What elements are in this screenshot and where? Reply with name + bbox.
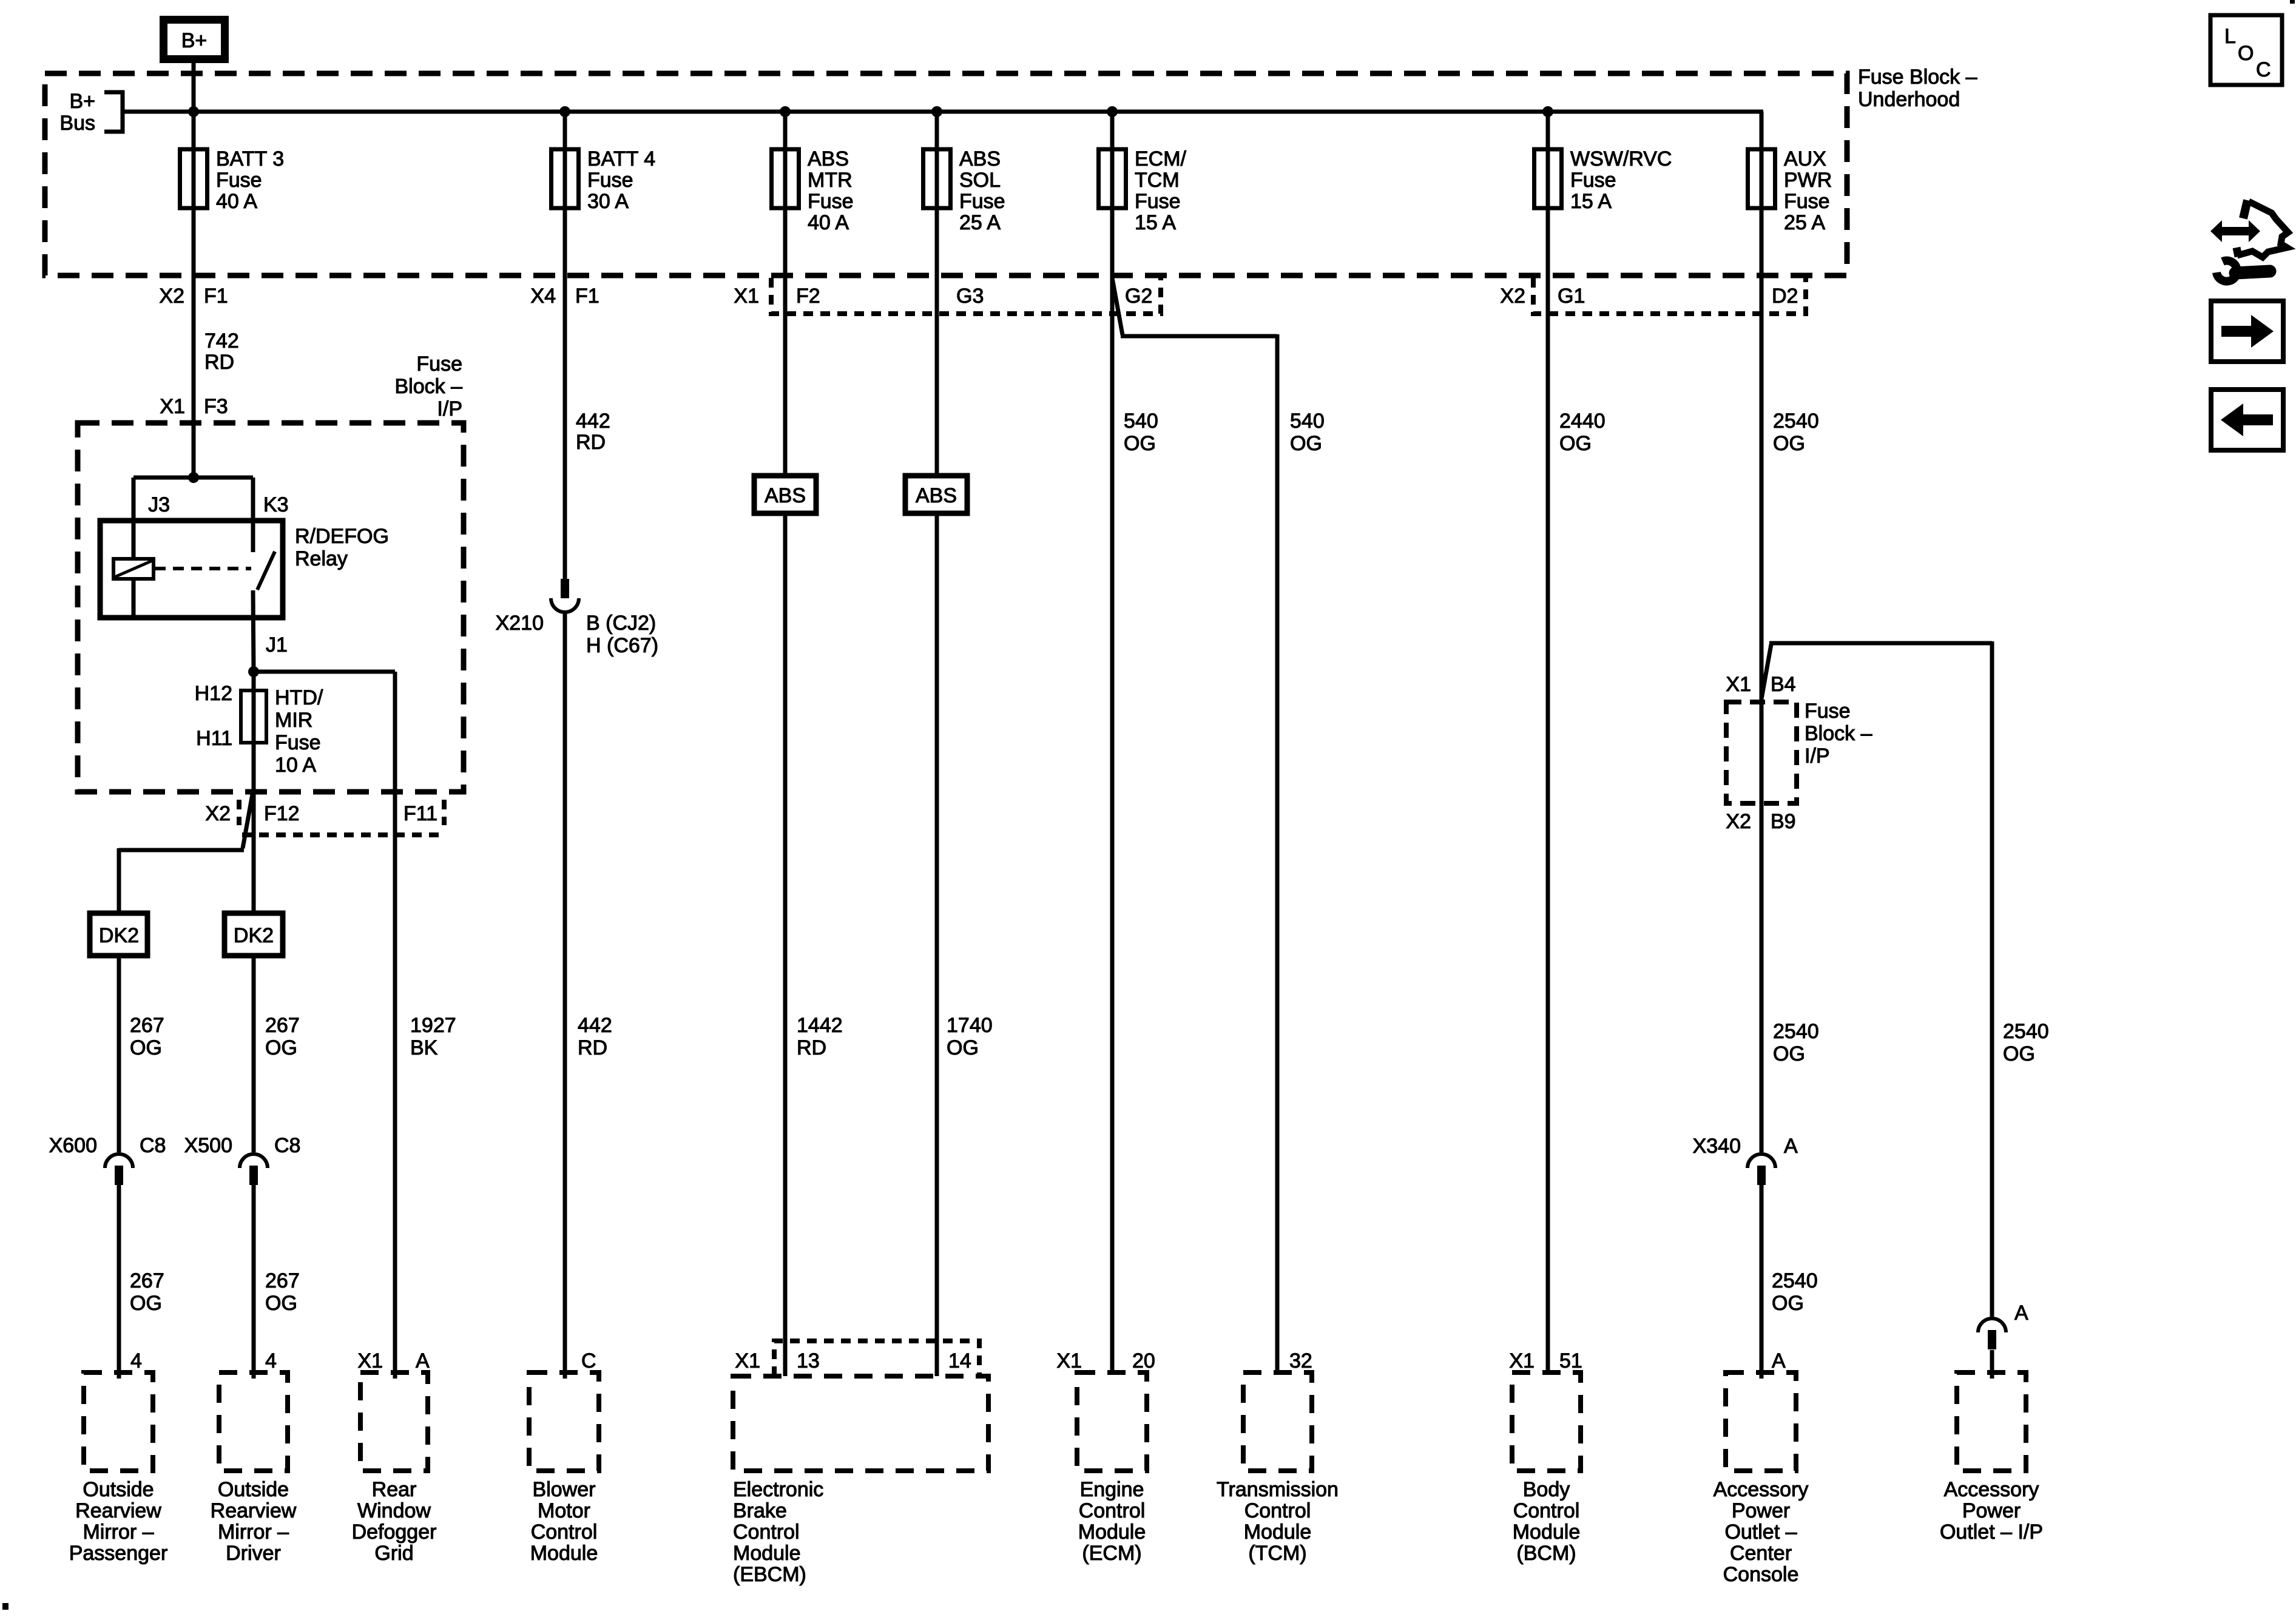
- svg-text:X1: X1: [735, 1349, 760, 1372]
- label fuse pin H12: [195, 682, 232, 705]
- svg-text:1740: 1740: [947, 1014, 993, 1037]
- label connector A: [2014, 1301, 2028, 1325]
- relay switch blade: [257, 552, 275, 590]
- legend arrow right box: [2211, 301, 2283, 362]
- label relay pin J3: [148, 493, 170, 516]
- label circuit 540 OG to ECM: [1124, 410, 1158, 455]
- svg-text:15 A: 15 A: [1570, 190, 1612, 213]
- wire 267 OG below X500 to driver mirror: [252, 1185, 256, 1379]
- svg-text:X2: X2: [159, 285, 184, 308]
- svg-text:13: 13: [797, 1349, 820, 1372]
- svg-text:Blower: Blower: [533, 1478, 596, 1501]
- wire ABS MTR fuse circuit 1442 RD to EBCM pin 13: [783, 112, 788, 1376]
- svg-text:ABS: ABS: [916, 484, 957, 507]
- svg-text:ABS: ABS: [808, 147, 849, 170]
- svg-text:20: 20: [1132, 1349, 1155, 1372]
- label circuit 267 OG driver: [265, 1014, 300, 1059]
- svg-text:F11: F11: [403, 802, 437, 825]
- svg-text:OG: OG: [1772, 1292, 1804, 1315]
- svg-text:X1: X1: [1509, 1349, 1535, 1372]
- svg-text:Fuse: Fuse: [1570, 169, 1616, 192]
- svg-text:Rear: Rear: [372, 1478, 417, 1501]
- svg-text:Fuse: Fuse: [416, 353, 462, 376]
- relay coil: [113, 559, 154, 579]
- fuse ABS MTR 40A: [772, 149, 799, 208]
- node X1 B4: [1726, 673, 1795, 696]
- svg-text:Accessory: Accessory: [1944, 1478, 2039, 1501]
- svg-text:RD: RD: [204, 351, 234, 374]
- svg-text:(ECM): (ECM): [1082, 1542, 1141, 1565]
- fuse HTD/MIR 10A: [241, 690, 266, 743]
- svg-text:O: O: [2238, 42, 2254, 65]
- wire 2540 OG from X340 to accessory outlet center console: [1760, 1185, 1764, 1379]
- svg-text:X1: X1: [357, 1349, 383, 1372]
- svg-text:J1: J1: [266, 633, 288, 657]
- svg-text:Outside: Outside: [218, 1478, 289, 1501]
- svg-text:L: L: [2224, 25, 2236, 48]
- fuse WSW/RVC 15A: [1535, 149, 1562, 208]
- pin X1 13 14 EBCM: [735, 1349, 971, 1372]
- svg-text:Transmission: Transmission: [1217, 1478, 1339, 1501]
- svg-text:C8: C8: [140, 1134, 166, 1157]
- svg-text:OG: OG: [130, 1036, 162, 1059]
- svg-text:OG: OG: [2003, 1042, 2035, 1065]
- junction B+ bus at ABS MTR: [780, 106, 791, 117]
- svg-text:Brake: Brake: [733, 1499, 787, 1522]
- svg-text:1442: 1442: [797, 1014, 843, 1037]
- legend arrow left box: [2211, 390, 2283, 450]
- label transmission control module TCM: [1217, 1478, 1339, 1565]
- pin 4 passenger mirror: [130, 1349, 142, 1372]
- wire relay J3 coil feed: [132, 478, 136, 559]
- label accessory power outlet I/P: [1940, 1478, 2043, 1544]
- label circuit 2540 OG lower: [1772, 1269, 1818, 1315]
- label engine control module ECM: [1078, 1478, 1146, 1565]
- wire WSW/RVC fuse circuit 2440 OG to BCM pin 51: [1546, 112, 1550, 1372]
- svg-text:25 A: 25 A: [959, 211, 1001, 234]
- label ECM/TCM Fuse 15 A: [1135, 147, 1187, 234]
- label Fuse Block - I/P (left): [395, 353, 463, 420]
- svg-text:(EBCM): (EBCM): [733, 1563, 806, 1586]
- component electronic brake control module EBCM: [733, 1376, 988, 1471]
- svg-text:(TCM): (TCM): [1248, 1542, 1306, 1565]
- wire relay K3 to switch contact: [251, 478, 255, 552]
- label X600 C8: [49, 1134, 166, 1157]
- wire F11 branch from J1 junction: [254, 670, 395, 674]
- svg-text:Outside: Outside: [83, 1478, 154, 1501]
- svg-text:B+: B+: [181, 29, 208, 52]
- svg-text:J3: J3: [148, 493, 170, 516]
- svg-text:X500: X500: [184, 1134, 232, 1157]
- label fuse pin H11: [196, 727, 232, 750]
- label relay pin K3: [263, 493, 289, 516]
- svg-text:OG: OG: [1559, 432, 1592, 455]
- svg-text:267: 267: [130, 1269, 164, 1292]
- component blower motor control module: [529, 1372, 599, 1471]
- svg-text:PWR: PWR: [1784, 169, 1832, 192]
- svg-text:X2: X2: [1726, 810, 1751, 833]
- svg-text:Fuse: Fuse: [1805, 700, 1851, 723]
- label Fuse Block - I/P (right): [1805, 700, 1872, 768]
- svg-text:Block –: Block –: [1805, 722, 1872, 745]
- junction relay feed node: [188, 472, 199, 483]
- svg-text:Console: Console: [1723, 1563, 1799, 1586]
- svg-text:G2: G2: [1125, 285, 1152, 308]
- wire BATT 4 circuit 442 RD from X210 to blower module: [563, 614, 567, 1379]
- svg-text:RD: RD: [797, 1036, 826, 1059]
- fuse AUX PWR 25A: [1748, 149, 1775, 208]
- wire branch 540 OG to TCM pin 32: [1112, 278, 1277, 1372]
- svg-text:OG: OG: [947, 1036, 979, 1059]
- svg-text:I/P: I/P: [437, 397, 462, 420]
- component body control module BCM: [1512, 1372, 1581, 1471]
- svg-text:Outlet – I/P: Outlet – I/P: [1940, 1521, 2043, 1544]
- pin 4 driver mirror: [265, 1349, 277, 1372]
- svg-text:Module: Module: [530, 1542, 598, 1565]
- svg-text:Passenger: Passenger: [69, 1542, 168, 1565]
- component transmission control module TCM: [1243, 1372, 1312, 1471]
- component outside rearview mirror passenger: [84, 1372, 153, 1471]
- svg-text:X1: X1: [734, 285, 759, 308]
- svg-text:OG: OG: [1773, 432, 1805, 455]
- svg-text:(BCM): (BCM): [1516, 1542, 1576, 1565]
- svg-text:4: 4: [130, 1349, 142, 1372]
- svg-text:X2: X2: [205, 802, 231, 825]
- svg-text:ECM/: ECM/: [1135, 147, 1187, 170]
- svg-text:X4: X4: [530, 285, 556, 308]
- component engine control module ECM: [1077, 1372, 1147, 1471]
- svg-text:2440: 2440: [1559, 410, 1606, 433]
- node X2 B9: [1726, 810, 1795, 833]
- inline label box ABS (solenoid): [905, 476, 967, 513]
- svg-text:Fuse Block –: Fuse Block –: [1858, 66, 1977, 89]
- svg-text:AUX: AUX: [1784, 147, 1826, 170]
- splice pack DK2 passenger: [90, 913, 147, 956]
- svg-text:SOL: SOL: [959, 169, 1001, 192]
- connector X600 C8: [105, 1154, 133, 1185]
- label X2 F12: [205, 802, 299, 825]
- node X2 F1 (BATT 3 output): [159, 285, 228, 308]
- pin X1 51 BCM: [1509, 1349, 1582, 1372]
- svg-text:Control: Control: [733, 1521, 800, 1544]
- B+ bus label and bracket: [59, 90, 123, 135]
- svg-text:BATT 3: BATT 3: [216, 147, 284, 170]
- pin A accessory outlet center console: [1772, 1349, 1786, 1372]
- svg-text:A: A: [1784, 1135, 1798, 1158]
- component outside rearview mirror driver: [219, 1372, 288, 1471]
- svg-text:Rearview: Rearview: [75, 1499, 161, 1522]
- svg-text:ABS: ABS: [959, 147, 1001, 170]
- svg-text:Electronic: Electronic: [733, 1478, 823, 1501]
- svg-text:Rearview: Rearview: [211, 1499, 297, 1522]
- wire AUX PWR fuse circuit 2540 OG to X340 connector: [1760, 112, 1764, 1152]
- svg-text:Fuse: Fuse: [275, 731, 321, 754]
- svg-text:Module: Module: [733, 1542, 801, 1565]
- wire ABS SOL fuse circuit 1740 OG to EBCM pin 14: [935, 112, 939, 1376]
- pin 32 TCM: [1289, 1349, 1312, 1372]
- svg-text:I/P: I/P: [1805, 744, 1830, 768]
- svg-text:F12: F12: [264, 802, 300, 825]
- svg-text:Outlet –: Outlet –: [1724, 1521, 1797, 1544]
- label ABS SOL Fuse 25 A: [959, 147, 1005, 234]
- svg-text:2540: 2540: [1772, 1269, 1818, 1292]
- svg-text:Center: Center: [1730, 1542, 1792, 1565]
- connector X340 A: [1747, 1154, 1775, 1185]
- wire BATT 4 fuse drop to X210 connector: [563, 112, 567, 579]
- svg-text:Driver: Driver: [226, 1542, 281, 1565]
- svg-text:OG: OG: [130, 1292, 162, 1315]
- power symbol B+: [164, 20, 225, 59]
- svg-text:X340: X340: [1693, 1135, 1741, 1158]
- label BATT 4 Fuse 30 A: [587, 147, 655, 213]
- svg-text:4: 4: [265, 1349, 277, 1372]
- svg-text:Fuse: Fuse: [216, 169, 262, 192]
- node D2 (AUX PWR output): [1772, 285, 1798, 308]
- svg-text:B4: B4: [1771, 673, 1796, 696]
- svg-text:OG: OG: [265, 1036, 297, 1059]
- svg-text:OG: OG: [265, 1292, 297, 1315]
- wire B+ bus bar: [124, 110, 1763, 114]
- svg-text:F1: F1: [575, 285, 599, 308]
- svg-text:Relay: Relay: [295, 547, 348, 570]
- svg-text:2540: 2540: [1773, 410, 1819, 433]
- svg-text:TCM: TCM: [1135, 169, 1180, 192]
- node X2 G1 (WSW/RVC output): [1500, 285, 1585, 308]
- wire 2540 OG below I/P outlet connector: [1990, 1350, 1994, 1379]
- node G2 (ECM/TCM output): [1125, 285, 1152, 308]
- wire relay J1 output: [253, 590, 254, 672]
- label outside rearview mirror passenger: [69, 1478, 168, 1565]
- pin X1 A defogger grid: [357, 1349, 430, 1372]
- wire ECM/TCM fuse circuit 540 OG to ECM pin 20: [1110, 112, 1115, 1372]
- svg-text:Accessory: Accessory: [1714, 1478, 1809, 1501]
- svg-text:742: 742: [204, 329, 239, 353]
- splice pack DK2 driver: [225, 913, 283, 956]
- svg-text:Block –: Block –: [395, 375, 463, 398]
- svg-text:ABS: ABS: [765, 484, 806, 507]
- svg-text:40 A: 40 A: [808, 211, 849, 234]
- label ABS MTR Fuse 40 A: [808, 147, 854, 234]
- scan artifact bottom left: [2, 1603, 8, 1610]
- relay actuation dashed link: [155, 567, 251, 570]
- svg-text:1927: 1927: [410, 1014, 456, 1037]
- svg-text:X1: X1: [1056, 1349, 1082, 1372]
- svg-text:Module: Module: [1244, 1521, 1312, 1544]
- label HTD/MIR Fuse 10 A: [275, 686, 323, 777]
- svg-text:10 A: 10 A: [275, 754, 316, 777]
- junction B+ bus at BATT 3: [188, 106, 199, 117]
- wire 267 OG F12 to DK2 driver side: [252, 956, 256, 1152]
- svg-text:F2: F2: [796, 285, 820, 308]
- label X210: [496, 612, 544, 635]
- fuse ABS SOL 25A: [923, 149, 951, 208]
- svg-text:RD: RD: [578, 1036, 607, 1059]
- wire branch 2540 OG to accessory power outlet I/P: [1761, 641, 1992, 1317]
- svg-text:Grid: Grid: [374, 1542, 413, 1565]
- label body control module BCM: [1513, 1478, 1581, 1565]
- label circuit 1927 BK: [410, 1014, 456, 1059]
- component rear window defogger grid: [360, 1372, 428, 1471]
- svg-text:F1: F1: [204, 285, 228, 308]
- wire branch F12 to passenger DK2: [119, 794, 252, 1152]
- label circuit 2540 OG I/P outlet: [2003, 1020, 2049, 1065]
- label circuit 1442 RD: [797, 1014, 843, 1059]
- label circuit 442 RD upper: [576, 410, 610, 454]
- label R/DEFOG Relay: [295, 525, 389, 570]
- label outside rearview mirror driver: [211, 1478, 297, 1565]
- label accessory power outlet center console: [1714, 1478, 1809, 1586]
- svg-text:H (C67): H (C67): [586, 634, 658, 657]
- label circuit 742 RD: [204, 329, 239, 374]
- relay R/DEFOG box: [100, 521, 283, 618]
- label circuit 2440 OG: [1559, 410, 1606, 455]
- junction B+ bus at ECM/TCM: [1107, 106, 1118, 117]
- svg-text:30 A: 30 A: [587, 190, 629, 213]
- svg-text:Control: Control: [1244, 1499, 1311, 1522]
- svg-text:51: 51: [1559, 1349, 1582, 1372]
- svg-text:442: 442: [578, 1014, 612, 1037]
- label electronic brake control module EBCM: [733, 1478, 823, 1586]
- svg-text:Engine: Engine: [1080, 1478, 1144, 1501]
- svg-text:BATT 4: BATT 4: [587, 147, 655, 170]
- label BATT 3 Fuse 40 A: [216, 147, 284, 213]
- wire relay top connector J3-K3: [133, 476, 253, 480]
- node X4 F1 (BATT 4 output): [530, 285, 599, 308]
- svg-text:RD: RD: [576, 431, 606, 454]
- fuse BATT 3 40A: [180, 149, 208, 208]
- svg-text:32: 32: [1289, 1349, 1312, 1372]
- fuse block underhood dashed outline: [45, 73, 1847, 275]
- legend LOC box: [2210, 15, 2282, 85]
- pin C blower module: [581, 1349, 596, 1372]
- svg-text:B (CJ2): B (CJ2): [586, 612, 656, 635]
- label circuit 1740 OG: [947, 1014, 993, 1059]
- label circuit 267 OG driver lower: [265, 1269, 300, 1315]
- svg-text:Bus: Bus: [59, 112, 95, 135]
- svg-text:442: 442: [576, 410, 610, 433]
- svg-text:Fuse: Fuse: [808, 190, 854, 213]
- junction B+ bus at ABS SOL: [931, 106, 942, 117]
- label circuit 267 OG passenger lower: [130, 1269, 164, 1315]
- svg-text:C: C: [581, 1349, 596, 1372]
- svg-text:Window: Window: [357, 1499, 431, 1522]
- fuse BATT 4 30A: [552, 149, 579, 208]
- label circuit 442 RD lower: [578, 1014, 612, 1059]
- junction J1 node: [248, 666, 259, 677]
- wire J1 to HTD/MIR fuse and out F12: [252, 672, 256, 913]
- svg-text:R/DEFOG: R/DEFOG: [295, 525, 389, 548]
- svg-text:Module: Module: [1078, 1521, 1146, 1544]
- svg-text:D2: D2: [1772, 285, 1798, 308]
- legend harness repair icon (arrow and wrench): [2210, 200, 2288, 282]
- label rear window defogger grid: [352, 1478, 437, 1565]
- svg-text:C: C: [2256, 58, 2271, 81]
- svg-text:WSW/RVC: WSW/RVC: [1570, 147, 1672, 170]
- wire B+ feed to BATT 3 fuse and down to relay junction: [192, 63, 196, 478]
- label X500 C8: [184, 1134, 301, 1157]
- svg-text:Mirror –: Mirror –: [83, 1521, 154, 1544]
- svg-text:MIR: MIR: [275, 709, 312, 732]
- svg-text:267: 267: [130, 1014, 164, 1037]
- svg-text:Motor: Motor: [538, 1499, 590, 1522]
- svg-text:B+: B+: [69, 90, 95, 113]
- svg-text:BK: BK: [410, 1036, 438, 1059]
- svg-text:X2: X2: [1500, 285, 1525, 308]
- svg-text:Control: Control: [1513, 1499, 1580, 1522]
- svg-text:MTR: MTR: [808, 169, 853, 192]
- svg-text:X600: X600: [49, 1134, 97, 1157]
- label X340 A: [1693, 1135, 1798, 1158]
- label circuit 2540 OG upper: [1773, 410, 1819, 455]
- inline label box ABS (motor): [754, 476, 816, 513]
- EBCM connector dotted box: [774, 1341, 979, 1376]
- svg-text:540: 540: [1124, 410, 1158, 433]
- label F11: [403, 802, 437, 825]
- svg-text:K3: K3: [263, 493, 289, 516]
- svg-text:B9: B9: [1771, 810, 1796, 833]
- scan artifact top right: [2290, 0, 2295, 4]
- svg-text:267: 267: [265, 1269, 300, 1292]
- svg-text:OG: OG: [1124, 432, 1156, 455]
- component accessory power outlet I/P: [1957, 1372, 2026, 1471]
- svg-text:Power: Power: [1962, 1499, 2021, 1522]
- svg-text:DK2: DK2: [99, 924, 139, 947]
- connector X210 (B CJ2 / H C67): [551, 579, 579, 612]
- svg-text:OG: OG: [1773, 1042, 1805, 1065]
- svg-text:Control: Control: [1079, 1499, 1146, 1522]
- svg-text:G3: G3: [956, 285, 984, 308]
- svg-text:Body: Body: [1523, 1478, 1570, 1501]
- label AUX PWR Fuse 25 A: [1784, 147, 1832, 234]
- fuse block I/P small dashed box (aux pwr): [1726, 702, 1797, 803]
- svg-text:540: 540: [1290, 410, 1325, 433]
- svg-text:A: A: [416, 1349, 430, 1372]
- svg-text:40 A: 40 A: [216, 190, 257, 213]
- wire 267 OG below X600 to passenger mirror: [117, 1185, 121, 1379]
- label Fuse Block - Underhood: [1858, 66, 1977, 111]
- wire relay coil to frame: [132, 579, 136, 616]
- svg-text:25 A: 25 A: [1784, 211, 1825, 234]
- connector A (accessory outlet I/P): [1978, 1318, 2006, 1349]
- svg-text:Defogger: Defogger: [352, 1521, 437, 1544]
- svg-text:X1: X1: [160, 395, 185, 418]
- svg-text:H12: H12: [195, 682, 232, 705]
- svg-text:Fuse: Fuse: [959, 190, 1005, 213]
- svg-text:A: A: [2014, 1301, 2028, 1325]
- svg-text:OG: OG: [1290, 432, 1322, 455]
- svg-text:HTD/: HTD/: [275, 686, 323, 709]
- component accessory power outlet center console: [1726, 1372, 1796, 1471]
- junction B+ bus at WSW/RVC: [1542, 106, 1553, 117]
- label circuit 2540 OG center console: [1773, 1020, 1819, 1065]
- node X1 F2 (ABS MTR output): [734, 285, 820, 308]
- connector X500 C8: [240, 1154, 268, 1185]
- svg-text:C8: C8: [274, 1134, 300, 1157]
- svg-text:Fuse: Fuse: [587, 169, 633, 192]
- wire 1927 BK F11 to rear defogger grid: [393, 672, 397, 1379]
- fuse ECM/TCM 15A: [1099, 149, 1126, 208]
- label WSW/RVC Fuse 15 A: [1570, 147, 1672, 213]
- svg-text:Control: Control: [531, 1521, 598, 1544]
- label relay pin J1: [266, 633, 288, 657]
- junction B+ bus at BATT 4: [559, 106, 570, 117]
- svg-text:14: 14: [948, 1349, 971, 1372]
- svg-text:Fuse: Fuse: [1135, 190, 1181, 213]
- svg-text:2540: 2540: [1773, 1020, 1819, 1043]
- svg-text:H11: H11: [196, 727, 232, 750]
- svg-text:DK2: DK2: [234, 924, 274, 947]
- connector dotted strip F2 G3 G2: [771, 278, 1161, 314]
